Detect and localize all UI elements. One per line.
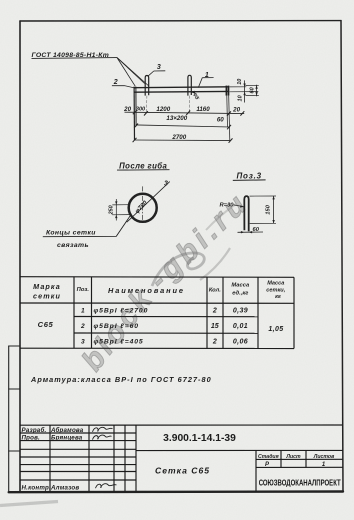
right end cross wire tick bbox=[228, 86, 230, 96]
weld leader line 3 bbox=[117, 58, 149, 86]
dim 250 extension line bottom bbox=[112, 214, 130, 216]
extension line tick top bbox=[246, 84, 259, 86]
spec table bottom border bbox=[20, 347, 294, 349]
arrowhead dim 60 right bbox=[249, 231, 252, 233]
sheet frame right edge bbox=[341, 21, 343, 492]
svg-text:1: 1 bbox=[205, 72, 209, 79]
svg-text:ед.,кг: ед.,кг bbox=[232, 291, 248, 297]
dimension line 20/300/1200/1160/20 bbox=[125, 112, 245, 113]
title block row line 4 bbox=[20, 456, 136, 458]
filing strip divider top bbox=[9, 345, 20, 347]
longitudinal wire pos1 bottom line bbox=[134, 90, 228, 93]
dim 150 extension line bottom bbox=[250, 222, 276, 224]
title block column role/name bbox=[49, 425, 51, 492]
svg-text:2: 2 bbox=[212, 339, 217, 346]
svg-text:Арматура:класса ВР-I по ГОСТ 6: Арматура:класса ВР-I по ГОСТ 6727-80 bbox=[30, 375, 212, 384]
position 2 leader bbox=[112, 86, 136, 89]
svg-text:1: 1 bbox=[81, 308, 85, 315]
svg-text:Листов: Листов bbox=[313, 454, 334, 460]
arrowhead dim 60 bottom bbox=[255, 92, 257, 95]
spec table row line 1 bbox=[74, 316, 258, 318]
dimension line 13x200/60 bbox=[136, 125, 230, 127]
svg-text:сетки: сетки bbox=[33, 292, 61, 301]
right extension line outer bbox=[229, 96, 230, 141]
title block row line 1 bbox=[20, 432, 136, 434]
spec table column line Poz bbox=[91, 277, 93, 349]
dim tick 2700 right bbox=[229, 138, 233, 142]
position 3 leader bbox=[148, 71, 166, 77]
dim 60 dimension line bbox=[238, 231, 264, 233]
dimension line 60 vertical bbox=[256, 85, 258, 97]
svg-text:10: 10 bbox=[238, 95, 244, 101]
left first cross wire / extension line bbox=[135, 87, 137, 127]
svg-text:10: 10 bbox=[237, 79, 243, 85]
longitudinal wire pos1 top line bbox=[134, 86, 228, 89]
svg-text:Поз.3: Поз.3 bbox=[236, 171, 261, 180]
svg-text:Н.контр.: Н.контр. bbox=[22, 485, 52, 492]
signature Bryantseva bbox=[93, 435, 112, 440]
svg-text:3.900.1-14.1-39: 3.900.1-14.1-39 bbox=[163, 433, 236, 444]
watermark swash stroke bbox=[200, 248, 230, 280]
arrowhead dim 10 top bbox=[243, 84, 245, 87]
filing strip divider middle bbox=[9, 388, 20, 390]
svg-text:3: 3 bbox=[157, 64, 161, 71]
svg-text:сетки,: сетки, bbox=[266, 288, 285, 294]
weld leader line 2 bbox=[117, 58, 145, 84]
watermark swash stroke 2 bbox=[206, 204, 236, 230]
arrowhead dim 250 top bbox=[115, 201, 117, 204]
svg-text:0,06: 0,06 bbox=[233, 339, 248, 346]
stage table column List/Listov bbox=[305, 451, 307, 468]
sheet frame bottom edge bbox=[9, 490, 343, 493]
dim 250 extension line top bbox=[112, 204, 130, 206]
doc number cell bottom line bbox=[136, 449, 343, 451]
stage table header line bbox=[256, 458, 343, 460]
svg-text:Масса: Масса bbox=[267, 281, 284, 287]
leader from tie-ends note to circle bbox=[43, 216, 130, 237]
spec table column line Massa ed bbox=[257, 277, 259, 348]
svg-text:СОЮЗВОДОКАНАЛПРОЕКТ: СОЮЗВОДОКАНАЛПРОЕКТ bbox=[259, 478, 341, 487]
dim tick at pin1 bbox=[144, 111, 148, 115]
title block column signature/date bbox=[113, 425, 115, 492]
stage table column Stadiya/List bbox=[280, 451, 282, 468]
left end cross wire pos2 / extension line bbox=[133, 87, 135, 141]
weld mark at pin2 bbox=[192, 91, 196, 94]
extension line tick bottom bbox=[246, 95, 259, 97]
svg-text:60: 60 bbox=[250, 87, 256, 93]
right last cross wire tick bbox=[225, 86, 227, 96]
title block column name/signature bbox=[88, 425, 90, 492]
dim tick at left end bbox=[133, 110, 137, 114]
svg-text:0,01: 0,01 bbox=[233, 323, 248, 330]
svg-text:1,05: 1,05 bbox=[268, 326, 283, 333]
extension line from bar top bbox=[230, 86, 247, 88]
title block column date2 bbox=[124, 425, 126, 492]
title block top border bbox=[20, 424, 342, 426]
svg-text:Марка: Марка bbox=[33, 282, 61, 291]
svg-text:Концы сетки: Концы сетки bbox=[46, 230, 96, 237]
hairpin bent wire pos3 bbox=[244, 196, 248, 231]
arrowhead dim 150 top bbox=[272, 196, 274, 199]
svg-text:0,39: 0,39 bbox=[233, 308, 248, 315]
svg-text:20: 20 bbox=[232, 106, 240, 113]
svg-text:Лист: Лист bbox=[285, 454, 301, 460]
bottom-left scan streak bbox=[0, 502, 58, 506]
spec table column line Kol bbox=[222, 277, 224, 348]
svg-text:Разраб.: Разраб. bbox=[22, 427, 47, 434]
svg-text:3: 3 bbox=[164, 180, 168, 187]
svg-text:150: 150 bbox=[265, 204, 271, 214]
svg-text:Абрамова: Абрамова bbox=[50, 427, 84, 434]
extension line from bar bottom bbox=[230, 91, 259, 93]
pin pos3 right centreline bbox=[188, 96, 190, 113]
sheet frame left edge bbox=[19, 21, 21, 492]
dim tick at right end bbox=[240, 111, 244, 115]
arrowhead R=30 leader bbox=[240, 205, 244, 207]
svg-text:ГОСТ 14098-85-Н1-Кт: ГОСТ 14098-85-Н1-Кт bbox=[32, 52, 110, 59]
spec table column line Naimenovanie bbox=[206, 277, 208, 348]
svg-text:После гиба: После гиба bbox=[119, 161, 167, 170]
svg-text:Кол.: Кол. bbox=[209, 288, 221, 294]
svg-text:Поз.: Поз. bbox=[77, 287, 90, 293]
signature Almazov bbox=[96, 484, 117, 489]
signature Abramova bbox=[93, 427, 113, 432]
diameter line / leader to position 3 bbox=[127, 182, 170, 223]
svg-text:2: 2 bbox=[113, 79, 118, 86]
title block row line 3 bbox=[20, 448, 136, 450]
left filing strip vertical line bbox=[8, 346, 10, 492]
bent pin pos3 left bbox=[145, 76, 149, 96]
weld leader line 1 bbox=[117, 58, 135, 87]
dim tick 13x200 left bbox=[134, 124, 138, 128]
svg-text:Стадия: Стадия bbox=[258, 454, 279, 460]
pin pos3 left centreline bbox=[146, 96, 148, 113]
svg-text:Сетка С65: Сетка С65 bbox=[155, 466, 210, 476]
detail title underline "Poz.3" bbox=[233, 179, 266, 182]
dim tick at pin2 bbox=[186, 111, 190, 115]
title block column main divider bbox=[135, 425, 137, 492]
svg-text:300: 300 bbox=[136, 107, 146, 113]
svg-text:20: 20 bbox=[123, 106, 131, 113]
dim tick 2700 left bbox=[133, 138, 137, 142]
stage table left border bbox=[255, 451, 257, 492]
svg-text:С65: С65 bbox=[38, 320, 54, 329]
title block row line 2 bbox=[20, 440, 136, 442]
svg-text:Наименование: Наименование bbox=[108, 286, 183, 295]
sheet frame top edge bbox=[20, 20, 341, 22]
arrowhead dim 60 left bbox=[241, 231, 244, 233]
dimension line 10/10 vertical bbox=[244, 80, 246, 102]
svg-text:13×200: 13×200 bbox=[166, 115, 187, 122]
spec table header separator bbox=[20, 302, 294, 304]
circle vertical centreline bbox=[142, 186, 144, 223]
dim 150 dimension line bbox=[273, 196, 275, 223]
svg-text:R=30: R=30 bbox=[220, 202, 235, 208]
svg-text:15: 15 bbox=[211, 323, 219, 330]
svg-text:кг: кг bbox=[275, 294, 281, 300]
dimension line 2700 bbox=[135, 139, 231, 142]
svg-text:60: 60 bbox=[252, 227, 259, 233]
svg-text:2700: 2700 bbox=[171, 134, 186, 141]
arrowhead dim 250 bottom bbox=[115, 215, 117, 218]
svg-text:3: 3 bbox=[81, 339, 85, 346]
stage table bottom line bbox=[256, 466, 343, 468]
dim tick 13x200 right bbox=[227, 125, 231, 129]
svg-text:60: 60 bbox=[217, 116, 224, 123]
svg-text:Брянцева: Брянцева bbox=[51, 434, 83, 441]
svg-text:2: 2 bbox=[80, 323, 85, 330]
title block row line 7 bbox=[20, 479, 136, 481]
title block row line 6 bbox=[20, 471, 136, 473]
svg-text:1200: 1200 bbox=[156, 106, 170, 113]
spec table right border bbox=[293, 277, 295, 348]
dim 250 dimension line bbox=[115, 199, 117, 221]
svg-text:1160: 1160 bbox=[196, 106, 210, 113]
svg-text:связать: связать bbox=[57, 242, 89, 249]
svg-text:φ5ВрI ℓ=60: φ5ВрI ℓ=60 bbox=[94, 323, 139, 330]
spec table row line 2 bbox=[74, 332, 258, 334]
right extension line inner bbox=[226, 96, 229, 128]
filing strip divider bottom bbox=[9, 450, 20, 452]
svg-text:φ5ВрI ℓ=405: φ5ВрI ℓ=405 bbox=[94, 339, 144, 346]
svg-text:Масса: Масса bbox=[231, 283, 250, 289]
svg-text:φ5ВрI ℓ=2700: φ5ВрI ℓ=2700 bbox=[94, 308, 149, 315]
svg-text:2: 2 bbox=[212, 308, 217, 315]
dim 150 extension line top bbox=[250, 195, 277, 197]
svg-text:Пров.: Пров. bbox=[22, 434, 41, 441]
weld spec label underline bbox=[32, 57, 118, 60]
radius R=30 leader bbox=[234, 205, 244, 207]
spec table column line Marka bbox=[73, 277, 75, 349]
spec table top border bbox=[20, 276, 294, 279]
arrowhead dim 150 bottom bbox=[272, 220, 274, 223]
arrowhead dim 10 bottom bbox=[243, 92, 245, 95]
arrowhead dim 60 top bbox=[255, 85, 257, 88]
bent pin pos3 right bbox=[188, 75, 191, 95]
position 1 leader bbox=[198, 78, 213, 88]
svg-text:250: 250 bbox=[109, 205, 115, 215]
rolled mesh circle (after bending) bbox=[129, 194, 157, 222]
dim tick at right cross wire bbox=[227, 111, 231, 115]
watermark flourish loop bbox=[152, 253, 204, 286]
title block row line 5 bbox=[20, 464, 136, 466]
detail title underline "Posle giba" bbox=[117, 169, 170, 171]
svg-text:Алмазов: Алмазов bbox=[50, 485, 79, 492]
